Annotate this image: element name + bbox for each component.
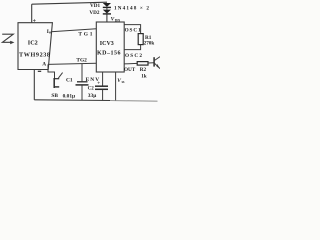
svg-text:TG1: TG1 (78, 31, 92, 37)
svg-text:C1: C1 (66, 78, 73, 84)
capacitor C2 plates (95, 85, 108, 87)
svg-text:SB: SB (51, 93, 58, 99)
wire: node TG2 from IC2 A to IC3 (48, 63, 96, 64)
svg-text:VD1: VD1 (90, 3, 100, 9)
input signal arrow (zigzag) (2, 34, 13, 42)
svg-text:IC2: IC2 (28, 39, 38, 46)
svg-text:ICV3: ICV3 (100, 41, 114, 47)
wire: R1 to OSC2 pin (124, 45, 140, 50)
svg-text:1N4148 × 2: 1N4148 × 2 (114, 6, 149, 12)
IC2 TWH9238 box (18, 23, 52, 70)
wire: OUT pin to R2 (124, 62, 137, 65)
diode VD1 (103, 3, 111, 7)
pin Vss stub from IC3 bottom to ground rail (115, 72, 117, 101)
svg-text:+: + (33, 19, 37, 25)
diode VD2 (103, 10, 111, 14)
pin label minus of IC2 (38, 70, 41, 72)
svg-text:270k: 270k (144, 40, 155, 46)
paper background (0, 0, 160, 110)
capacitor C2 bottom lead (102, 90, 104, 101)
wire: bottom ground rail (34, 99, 110, 102)
svg-text:A: A (42, 62, 46, 68)
push button SB (53, 78, 55, 88)
electrolytic capacitor C2 top lead from IC3 bottom (102, 72, 104, 86)
svg-text:33μ: 33μ (88, 93, 96, 99)
svg-text:V: V (117, 78, 121, 84)
wire: VDD top rail (32, 2, 107, 4)
capacitor C1 bottom lead (81, 85, 83, 100)
wire: IC2 minus pin down to ground rail (33, 70, 35, 100)
IC3 KD-156 box (96, 22, 124, 72)
capacitor C1 plates (77, 81, 88, 83)
svg-text:o: o (49, 29, 51, 34)
svg-text:TWH9238: TWH9238 (19, 52, 50, 59)
svg-text:OSC2: OSC2 (125, 53, 142, 59)
wire: node TG1 from IC2 Io to IC3 (51, 29, 96, 32)
svg-text:TG2: TG2 (76, 58, 87, 64)
wire: ground rail right section (faded in scan) (110, 100, 158, 103)
transistor (clipped at edge): base bar (153, 57, 155, 66)
svg-text:OSC1: OSC1 (125, 27, 141, 33)
transistor emitter arrowhead (157, 64, 160, 69)
svg-text:DD: DD (115, 19, 121, 23)
svg-text:0.01μ: 0.01μ (63, 94, 76, 100)
resistor R2 1k (137, 62, 148, 66)
svg-text:KD–156: KD–156 (97, 50, 121, 56)
svg-text:R2: R2 (140, 67, 147, 73)
wire: OSC1 pin to R1 (124, 25, 140, 34)
wire: VDD pin lead into IC3 top (106, 14, 108, 22)
transistor emitter (155, 63, 160, 68)
wire: R2 to transistor base (148, 62, 154, 64)
transistor collector (155, 57, 160, 61)
svg-text:1k: 1k (141, 74, 147, 80)
resistor R1 270k (138, 34, 143, 45)
svg-text:VD2: VD2 (89, 10, 99, 16)
wire: IC2 plus-pin drop from top rail (31, 4, 33, 23)
wire: branch from node A down to push button SB (48, 64, 55, 78)
svg-text:C2: C2 (88, 86, 95, 91)
svg-text:OUT: OUT (124, 67, 136, 73)
capacitor C1 top lead (81, 64, 83, 82)
